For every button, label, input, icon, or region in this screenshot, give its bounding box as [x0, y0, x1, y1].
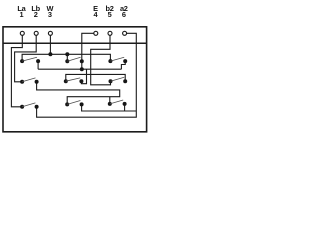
svg-text:1: 1: [20, 10, 24, 19]
contact K1b left: [65, 59, 69, 63]
terminal 2 Lb: [34, 31, 38, 35]
wire K4 right contact down right to a2 drop: [82, 104, 137, 111]
junction W bus / pin3: [48, 52, 52, 56]
contact K1a left: [20, 59, 24, 63]
contact K2a left: [20, 80, 24, 84]
lever K1c: [110, 57, 124, 61]
wire a2: pin6 right, down, left along bottom, up to switch K3 right contact: [37, 33, 137, 117]
terminal 3 W: [48, 31, 52, 35]
node Lb label: [31, 4, 40, 19]
wire E bus horizontal: [38, 68, 121, 70]
wire Lb: pin2 down, left, down, right to switch K2 left contact: [15, 35, 37, 82]
contact K2b right: [79, 79, 83, 83]
contact K3 left: [20, 105, 24, 109]
contact K2c right: [123, 79, 127, 83]
lever K1a: [22, 57, 37, 61]
node W label: [46, 4, 53, 19]
terminal 5 b2: [108, 31, 112, 35]
contact K2c left: [109, 79, 113, 83]
lever K4: [67, 101, 80, 105]
terminal strip divider line: [3, 42, 147, 44]
lever K5: [110, 100, 123, 104]
svg-text:5: 5: [108, 10, 112, 19]
wire W bus drop to switch K1b left contact: [66, 54, 68, 61]
wire La: pin1 down, left, down, right to switch K3 left contact: [11, 35, 22, 107]
contact K1c right: [123, 59, 127, 63]
svg-text:3: 3: [48, 10, 52, 19]
wire b2: pin5 down, left, down, right up to switch K2c left contact: [91, 35, 111, 85]
wire E bus riser to switch K2b right contact: [81, 69, 86, 84]
wire E bus up to switch K1a right contact: [37, 61, 39, 69]
node a2 label: [120, 4, 128, 19]
lever K2a: [22, 78, 35, 82]
contact K1b right: [80, 59, 84, 63]
wire riser switch K5 left contact up to that bus: [109, 97, 111, 104]
wire E bus jog up to switch K1c right contact: [121, 61, 125, 69]
lever K3: [22, 103, 35, 107]
lever K2c: [111, 77, 125, 81]
wire W: pin3 down to W bus: [49, 35, 51, 54]
contact K2b left: [64, 79, 68, 83]
junction W bus / K1b drop: [65, 52, 69, 56]
svg-text:6: 6: [122, 10, 126, 19]
contact K5 right: [123, 102, 127, 106]
lever K2b: [66, 78, 80, 81]
wire E: pin4 left then down to E bus: [82, 33, 94, 69]
node La label: [17, 4, 26, 19]
contact K2a right: [35, 80, 39, 84]
wire K5 right contact down to that wire: [124, 104, 126, 111]
terminal 4 E: [94, 31, 98, 35]
contact K1c left: [108, 59, 112, 63]
svg-text:2: 2: [34, 10, 38, 19]
junction E bus / pin4: [80, 67, 84, 71]
terminal 6 a2: [123, 31, 127, 35]
contact K1a right: [36, 59, 40, 63]
contact K4 left: [65, 102, 69, 106]
wire K2a right contact down, right, down, left to switch K4 left contact riser: [37, 82, 120, 105]
terminal 1 La: [20, 31, 24, 35]
node E label: [93, 4, 98, 19]
contact K3 right: [35, 105, 39, 109]
contact K5 left: [108, 102, 112, 106]
wire K2b left contact up and right to switch K2c right contact: [66, 74, 125, 81]
node b2 label: [106, 4, 114, 19]
wire W bus horizontal: [22, 54, 110, 61]
contact K4 right: [80, 102, 84, 106]
enclosure box: [3, 27, 147, 132]
svg-text:4: 4: [94, 10, 99, 19]
lever K1b: [67, 57, 80, 61]
